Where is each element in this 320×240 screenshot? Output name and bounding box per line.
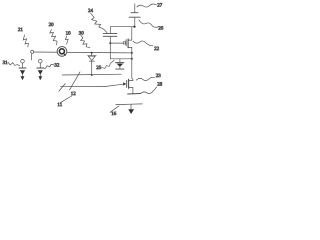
terminal 31 with ground arrow	[19, 59, 26, 80]
svg-text:32: 32	[54, 62, 60, 68]
junction dot power/top rail	[133, 26, 135, 28]
power bar short	[131, 12, 138, 14]
leader for 20	[50, 30, 57, 46]
leader for 25	[102, 60, 114, 68]
leader for 30	[81, 35, 90, 47]
ground on wire F	[128, 104, 134, 114]
label 12	[71, 91, 77, 97]
svg-text:11: 11	[57, 102, 62, 108]
wire B (control line to transistor 23 gate)	[60, 84, 123, 86]
wire C (node to transistor source column)	[110, 58, 132, 60]
svg-text:21: 21	[18, 27, 24, 33]
leader for 12 crossing wires	[70, 72, 81, 90]
leader for 23	[136, 77, 154, 80]
transistor 22 (reset)	[123, 27, 132, 48]
input terminal 21	[31, 50, 34, 53]
leader for 10	[65, 36, 68, 44]
stub below terminal 21	[30, 54, 32, 60]
svg-text:12: 12	[71, 91, 77, 97]
label 27	[157, 3, 163, 9]
junction dot wire C / source column	[131, 58, 133, 60]
wire from node down through main wire to wire C	[109, 43, 111, 59]
diode to lower wire	[88, 53, 97, 75]
power supply stub 27	[134, 4, 136, 12]
label 26	[158, 26, 164, 32]
leader for 28	[140, 87, 156, 94]
svg-text:23: 23	[156, 73, 162, 79]
svg-text:26: 26	[158, 26, 164, 32]
label 25	[96, 65, 102, 71]
svg-text:10: 10	[66, 31, 72, 37]
svg-text:20: 20	[49, 22, 55, 28]
label 24	[88, 8, 94, 14]
leader for 31	[8, 62, 20, 66]
label 32	[54, 62, 60, 68]
svg-text:25: 25	[96, 65, 102, 71]
label 30	[79, 31, 85, 37]
junction dot on main wire	[91, 52, 93, 54]
capacitor 24	[103, 33, 117, 43]
label 23	[156, 73, 162, 79]
power bar long	[129, 16, 140, 18]
label 21	[18, 27, 24, 33]
junction dot main wire / source column	[131, 52, 133, 54]
label 31	[3, 60, 9, 66]
svg-text:16: 16	[111, 111, 117, 117]
transistor 23 (output)	[123, 79, 133, 93]
wire power to top rail	[134, 17, 136, 26]
junction dot on lower wire A	[91, 74, 93, 76]
label 16	[111, 111, 117, 117]
leader for 22	[133, 41, 153, 46]
label 22	[154, 46, 160, 52]
label 11	[57, 102, 62, 108]
leader for 26	[139, 20, 158, 27]
wire from capacitor top to power column	[110, 27, 135, 33]
leader for 24	[91, 13, 107, 32]
leader for 16	[110, 106, 119, 112]
charge packet Q (10)	[57, 47, 67, 57]
label 20	[49, 22, 55, 28]
leader for 21	[23, 35, 28, 47]
leader for 32	[44, 64, 54, 68]
junction dot at capacitor bottom / gate node	[109, 42, 111, 44]
leader for 11	[61, 96, 72, 102]
wire A (lower horizontal)	[62, 73, 121, 76]
capacitor 25 to ground	[115, 59, 124, 69]
wire: main signal node	[34, 51, 132, 54]
svg-text:31: 31	[3, 60, 9, 66]
wire: source of 22 down to transistor 23	[132, 47, 133, 80]
label 10	[66, 31, 72, 37]
leader for 27	[137, 4, 157, 7]
wire F (lower output line)	[116, 103, 143, 106]
svg-text:22: 22	[154, 46, 160, 52]
label 28	[157, 82, 163, 88]
gate wire of transistor 22	[110, 42, 123, 44]
output bar at source of 23	[128, 93, 141, 96]
svg-text:28: 28	[157, 82, 163, 88]
terminal 32 with ground arrow	[37, 59, 44, 80]
svg-text:27: 27	[157, 3, 163, 9]
slash on wire B	[59, 84, 65, 92]
